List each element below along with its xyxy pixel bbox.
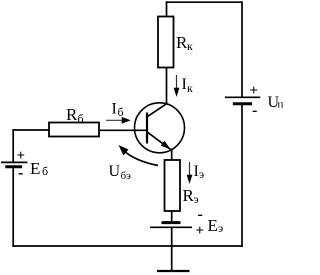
resistor Rэ xyxy=(165,160,181,211)
svg-text:к: к xyxy=(187,39,193,53)
svg-text:к: к xyxy=(187,81,193,95)
ground xyxy=(157,270,190,272)
wire bottom rail xyxy=(13,245,242,247)
svg-text:+: + xyxy=(17,148,26,164)
wire collector (Rк bottom to transistor) xyxy=(166,68,168,104)
resistor Rб xyxy=(49,123,99,137)
wire emitter (transistor to Rэ top) xyxy=(171,150,173,161)
svg-text:б: б xyxy=(78,111,84,125)
svg-text:+: + xyxy=(196,223,205,239)
svg-text:-: - xyxy=(252,102,257,119)
svg-text:+: + xyxy=(250,83,259,99)
wire right lower (Uп battery down to bottom rail) xyxy=(241,105,243,247)
wire Eэ battery to ground xyxy=(171,228,173,271)
transistor collector lead xyxy=(147,104,167,117)
current arrow Iб xyxy=(106,117,131,124)
transistor emitter lead with arrow xyxy=(147,132,172,151)
svg-text:б: б xyxy=(118,105,124,119)
svg-text:-: - xyxy=(18,165,23,182)
svg-text:R: R xyxy=(66,105,78,124)
wire Rб right terminal to transistor base xyxy=(99,129,147,131)
svg-text:э: э xyxy=(218,221,223,235)
svg-text:-: - xyxy=(198,206,203,223)
battery Eэ xyxy=(150,223,192,228)
svg-text:б: б xyxy=(42,164,48,178)
wire Rэ bottom to Eэ battery xyxy=(171,211,173,222)
svg-text:I: I xyxy=(112,101,117,118)
battery Eб xyxy=(1,162,28,166)
wire left lower (Eб battery down to bottom rail) xyxy=(12,168,14,247)
transistor base bar xyxy=(146,113,148,144)
voltage arc Uбэ xyxy=(122,149,159,166)
wire top (collector node to Uп plus rail) xyxy=(167,1,243,3)
resistor Rк xyxy=(158,17,174,68)
svg-text:п: п xyxy=(278,99,284,111)
battery Uп xyxy=(225,97,260,104)
svg-text:U: U xyxy=(109,163,121,180)
svg-text:э: э xyxy=(199,167,204,181)
wire right upper (top rail down to Uп battery) xyxy=(241,2,243,96)
current arrow Iэ xyxy=(187,162,193,184)
wire left upper (Rб corner down to Eб battery) xyxy=(12,130,14,162)
svg-text:бэ: бэ xyxy=(121,170,132,182)
svg-text:E: E xyxy=(30,159,40,178)
svg-text:э: э xyxy=(194,192,199,206)
svg-text:E: E xyxy=(208,216,218,235)
transistor VT circle xyxy=(135,103,185,153)
wire collector top (top rail to Rк) xyxy=(166,2,168,16)
wire corner to Rб left terminal xyxy=(13,129,49,131)
current arrow Iк xyxy=(174,75,180,97)
